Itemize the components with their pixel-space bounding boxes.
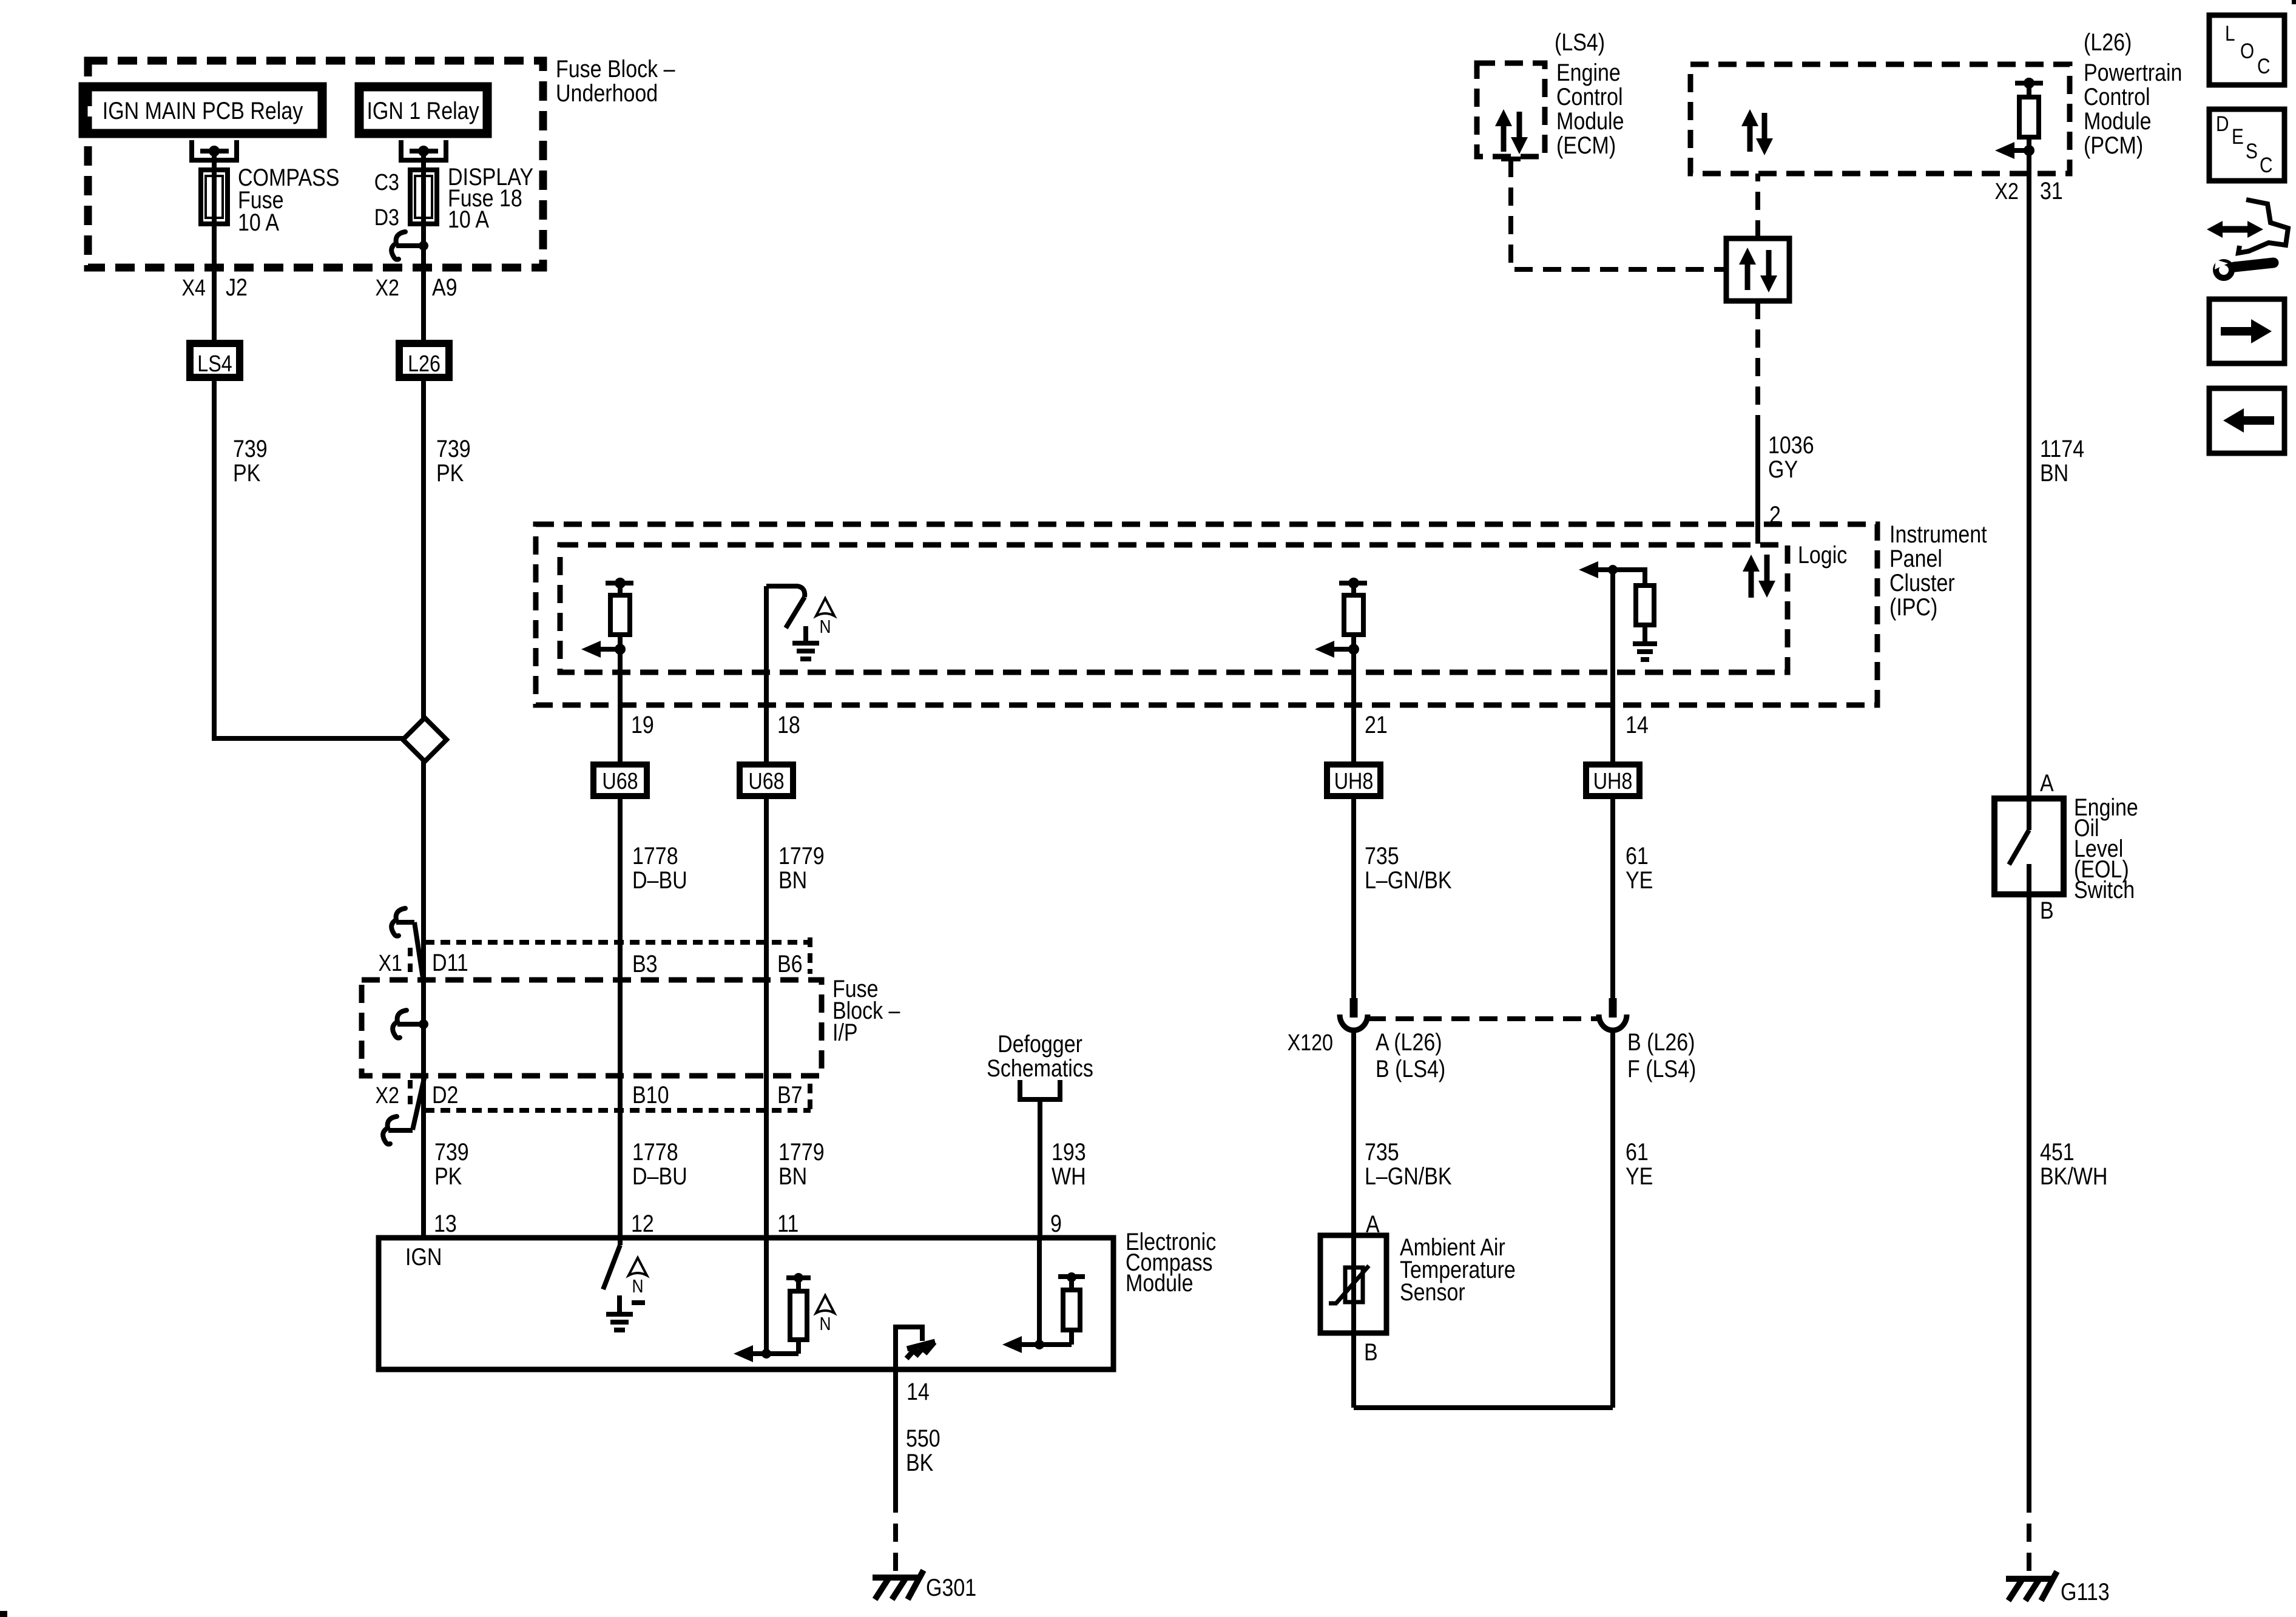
wire label 735 L-GN/BK upper <box>1365 842 1452 893</box>
compass signal arrow pin 9 <box>1018 1342 1039 1347</box>
page corner mark top right <box>2292 0 2296 4</box>
connector D3 hook <box>391 232 424 260</box>
IPC logic arrows <box>1743 555 1775 598</box>
relay K1 IGN MAIN PCB Relay <box>83 87 322 133</box>
svg-text:YE: YE <box>1626 866 1653 893</box>
svg-text:N: N <box>632 1276 643 1297</box>
PCM resistor R4 <box>2019 83 2039 150</box>
junction dot pin 14 <box>1608 565 1618 575</box>
connector X2 hook lower <box>383 1116 413 1144</box>
compass resistor R5 branch <box>766 1281 807 1354</box>
dotted separator X1 <box>408 948 413 974</box>
page corner mark bottom left <box>0 1611 7 1617</box>
svg-text:Module: Module <box>1556 107 1624 134</box>
svg-text:G301: G301 <box>926 1573 976 1601</box>
svg-text:Control: Control <box>2084 83 2150 110</box>
PCM resistor terminal bar <box>2015 78 2043 89</box>
IPC signal arrow pin 14 <box>1595 567 1613 572</box>
svg-text:N: N <box>819 1314 831 1334</box>
IPC resistor R3 branch <box>1613 570 1654 642</box>
svg-text:PK: PK <box>434 1162 462 1189</box>
wire 735 L-GN/BK upper <box>1351 799 1356 998</box>
svg-text:N: N <box>819 616 831 637</box>
svg-text:D–BU: D–BU <box>632 1162 687 1189</box>
svg-text:UH8: UH8 <box>1334 769 1374 794</box>
wire 735 to sensor <box>1351 1030 1356 1235</box>
label Instrument Panel Cluster IPC <box>1889 520 1987 620</box>
svg-text:E: E <box>2232 125 2244 149</box>
svg-text:UH8: UH8 <box>1593 769 1633 794</box>
icon DESC box <box>2209 109 2284 181</box>
wire label 735 L-GN/BK lower <box>1365 1138 1452 1189</box>
electronic compass module box <box>379 1238 1113 1369</box>
dashed connector X120 link <box>1368 1016 1599 1021</box>
svg-text:X2: X2 <box>376 1083 399 1109</box>
svg-text:735: 735 <box>1365 1138 1399 1165</box>
junction dot pin 11 <box>761 1349 771 1359</box>
svg-text:1778: 1778 <box>632 1138 678 1165</box>
connector tag U68 pin18 <box>740 765 793 796</box>
label B (L26) F (LS4) <box>1627 1028 1696 1082</box>
ambient air temperature sensor box <box>1320 1235 1386 1333</box>
label A (L26) B (LS4) <box>1376 1028 1445 1082</box>
svg-text:PK: PK <box>233 459 261 486</box>
compass wire pin 9 <box>1037 1238 1042 1345</box>
svg-text:LS4: LS4 <box>197 351 232 377</box>
label Electronic Compass Module <box>1126 1227 1216 1296</box>
defogger off-page bracket <box>1020 1080 1060 1099</box>
fuse F1 COMPASS Fuse 10A <box>201 170 228 224</box>
engine control module dashed box <box>1477 63 1545 157</box>
compass switch pin 12 <box>603 1238 620 1289</box>
compass resistor R6 terminal bar <box>1058 1272 1085 1282</box>
svg-text:Sensor: Sensor <box>1400 1278 1465 1305</box>
svg-text:Control: Control <box>1556 83 1623 110</box>
svg-text:S: S <box>2246 140 2258 163</box>
IPC signal arrow pin 19 <box>597 647 620 652</box>
IPC signal arrow pin 21 <box>1331 647 1354 652</box>
svg-text:PK: PK <box>436 459 464 486</box>
svg-text:Panel: Panel <box>1889 544 1942 572</box>
svg-text:(L26): (L26) <box>2084 28 2132 55</box>
wire label 61 YE upper <box>1626 842 1653 893</box>
junction dot pin 31 <box>2024 145 2034 156</box>
connector X120 pin A male <box>1350 998 1358 1018</box>
svg-text:1174: 1174 <box>2040 434 2084 462</box>
svg-text:Underhood: Underhood <box>556 79 658 106</box>
svg-text:739: 739 <box>436 434 471 462</box>
dashed wire to G113 <box>2027 1494 2031 1578</box>
junction dot pin 21 <box>1348 644 1359 655</box>
svg-text:1779: 1779 <box>778 842 825 869</box>
svg-text:A: A <box>2040 769 2054 796</box>
wire label 739 PK right <box>436 434 471 486</box>
svg-text:WH: WH <box>1052 1162 1086 1189</box>
ECM serial data arrows <box>1495 109 1528 154</box>
compass signal arrow pin 11 <box>749 1351 766 1356</box>
svg-text:IGN: IGN <box>405 1243 442 1270</box>
N marker compass switch <box>629 1258 647 1275</box>
svg-text:Module: Module <box>1126 1269 1193 1296</box>
svg-text:14: 14 <box>907 1377 930 1405</box>
wire from L26 down to splice <box>421 381 426 718</box>
dotted separator X2 <box>408 1080 413 1107</box>
svg-text:Switch: Switch <box>2074 876 2135 903</box>
compass resistor R5 terminal bar <box>786 1273 811 1283</box>
label Powertrain Control Module PCM <box>2084 58 2182 158</box>
label Defogger Schematics <box>987 1030 1093 1081</box>
connector X120 pin A female cup <box>1340 1014 1368 1030</box>
instrument panel cluster outer dashed box <box>536 524 1877 705</box>
compass switch fixed contact <box>632 1300 645 1305</box>
label Engine Control Module ECM <box>1556 58 1624 158</box>
wire pin 14 to UH8 <box>1610 570 1615 761</box>
icon next arrow box <box>2209 299 2284 363</box>
svg-text:L–GN/BK: L–GN/BK <box>1365 866 1452 893</box>
label Fuse Block - I/P <box>832 974 900 1045</box>
svg-text:10 A: 10 A <box>238 208 279 235</box>
svg-text:A: A <box>1366 1210 1380 1237</box>
svg-text:11: 11 <box>777 1209 799 1237</box>
junction dot pin 9 <box>1035 1340 1044 1349</box>
svg-text:Instrument: Instrument <box>1889 520 1987 547</box>
connector tag UH8 pin14 <box>1586 765 1639 796</box>
svg-text:193: 193 <box>1052 1138 1086 1165</box>
svg-text:C3: C3 <box>374 170 399 195</box>
svg-text:U68: U68 <box>748 769 784 794</box>
wire label 739 PK lower <box>434 1138 469 1189</box>
wire 1779 BN upper <box>764 799 769 1238</box>
connector X2 hook upper <box>393 1010 424 1038</box>
thermistor RT1 <box>1329 1266 1369 1303</box>
compass wire pin 11 <box>764 1238 769 1354</box>
fuse block underhood dashed box <box>88 61 543 268</box>
wire PCM pin 31 down <box>2027 150 2031 798</box>
icon LOC box <box>2209 15 2284 85</box>
wire label 451 BK/WH <box>2040 1138 2107 1189</box>
pin X4 J2 labels <box>182 273 248 300</box>
wire 193 WH <box>1038 1099 1042 1238</box>
dashed wire junction down <box>1755 301 1760 422</box>
svg-text:D2: D2 <box>432 1081 458 1108</box>
svg-text:Schematics: Schematics <box>987 1054 1093 1081</box>
wire 550 BK <box>893 1369 898 1494</box>
label Fuse Block - Underhood <box>556 55 675 106</box>
svg-text:B3: B3 <box>632 950 658 977</box>
svg-text:1036: 1036 <box>1768 431 1814 458</box>
svg-text:Logic: Logic <box>1798 541 1847 568</box>
svg-text:D–BU: D–BU <box>632 866 687 893</box>
svg-text:739: 739 <box>233 434 268 462</box>
svg-text:X2: X2 <box>1995 179 2019 204</box>
svg-text:D11: D11 <box>432 948 468 976</box>
IPC switch to ground pin 18 <box>766 586 805 761</box>
svg-text:19: 19 <box>631 711 654 738</box>
connector X1 hook <box>391 908 423 978</box>
IPC resistor R2 <box>1344 583 1363 649</box>
svg-text:(ECM): (ECM) <box>1556 131 1616 158</box>
EOL switch blade <box>2009 798 2029 894</box>
wire 451 BK/WH <box>2027 894 2031 1494</box>
wire 739 PK below splice <box>421 761 426 1238</box>
icon previous arrow box <box>2209 388 2284 453</box>
wire label 1779 BN upper <box>778 842 825 893</box>
sensor internal wire <box>1351 1235 1356 1333</box>
N marker compass resistor <box>816 1295 834 1313</box>
wire label 193 WH <box>1052 1138 1086 1189</box>
svg-text:61: 61 <box>1626 1138 1649 1165</box>
svg-text:61: 61 <box>1626 842 1649 869</box>
compass earth ground <box>606 1312 633 1317</box>
engine oil level switch box <box>1994 798 2064 894</box>
wire 1778 D-BU upper <box>618 799 623 1238</box>
svg-text:YE: YE <box>1626 1162 1653 1189</box>
ECM terminal bar <box>1501 157 1521 161</box>
relay K2 output terminal <box>401 140 446 160</box>
svg-text:C: C <box>2260 154 2272 177</box>
svg-text:18: 18 <box>777 711 800 738</box>
svg-text:B: B <box>1364 1338 1378 1365</box>
dotted terminator right of B6 <box>808 937 812 974</box>
label COMPASS Fuse 10 A <box>238 163 339 235</box>
svg-text:31: 31 <box>2040 177 2063 204</box>
connector tag U68 pin19 <box>593 765 647 796</box>
svg-text:(IPC): (IPC) <box>1889 593 1937 620</box>
svg-text:Cluster: Cluster <box>1889 569 1955 596</box>
wire label 1779 BN lower <box>778 1138 825 1189</box>
relay K1 output terminal <box>192 140 237 160</box>
connector X2 diagonal <box>413 1076 425 1130</box>
svg-text:X2: X2 <box>376 275 399 301</box>
dashed wire to G301 <box>893 1494 898 1576</box>
svg-text:G113: G113 <box>2061 1578 2110 1605</box>
IPC earth ground R3 <box>1633 641 1657 646</box>
svg-text:14: 14 <box>1626 711 1649 738</box>
powertrain control module dashed box <box>1690 64 2070 174</box>
dotted row X2 D2 B10 B7 <box>425 1108 811 1113</box>
wire from LS4 down and right to splice <box>214 381 403 738</box>
wire sensor B to loop <box>1351 1333 1356 1408</box>
splice diamond <box>403 718 447 761</box>
PCM serial data arrows <box>1741 109 1773 155</box>
svg-text:1779: 1779 <box>778 1138 825 1165</box>
svg-text:B (LS4): B (LS4) <box>1376 1055 1445 1082</box>
svg-text:Module: Module <box>2084 107 2151 134</box>
svg-text:X120: X120 <box>1288 1030 1333 1056</box>
wire label 550 BK <box>906 1424 940 1476</box>
wire pin 19 to U68 <box>618 649 623 761</box>
fuse block I/P dashed box <box>362 980 822 1076</box>
wire 1036 GY <box>1755 422 1760 544</box>
svg-text:BK: BK <box>906 1448 934 1476</box>
IPC earth ground <box>792 641 819 646</box>
svg-text:J2: J2 <box>226 273 248 300</box>
svg-text:9: 9 <box>1050 1209 1062 1237</box>
svg-text:Fuse Block –: Fuse Block – <box>556 55 675 82</box>
label Engine Oil Level EOL Switch <box>2074 793 2138 903</box>
wire sensor loop bottom <box>1354 1405 1613 1410</box>
svg-text:550: 550 <box>906 1424 940 1451</box>
wire 61 to sensor loop <box>1610 1030 1615 1408</box>
compass resistor R6 branch <box>1039 1281 1080 1345</box>
wire label 739 PK left <box>233 434 268 486</box>
svg-text:A9: A9 <box>432 273 458 300</box>
connector tag LS4 <box>190 343 240 377</box>
compass switch ground stub <box>617 1295 622 1312</box>
dotted terminator right of B7 <box>808 1084 812 1114</box>
junction dot pin 19 <box>615 644 626 655</box>
IPC switch ground stub <box>803 626 808 642</box>
svg-text:Engine: Engine <box>1556 58 1621 86</box>
fuse F2 DISPLAY Fuse 18 10A <box>410 170 437 224</box>
wire 739 PK from DISPLAY fuse <box>421 151 426 340</box>
label Ambient Air Temperature Sensor <box>1400 1233 1516 1305</box>
svg-text:D3: D3 <box>374 205 399 231</box>
IPC resistor R1 <box>610 583 630 649</box>
wire 739 PK from COMPASS fuse <box>212 151 217 340</box>
svg-text:A (L26): A (L26) <box>1376 1028 1442 1055</box>
connector X120 pin B male <box>1609 998 1617 1018</box>
svg-text:B7: B7 <box>777 1081 803 1108</box>
serial data junction box <box>1726 238 1789 301</box>
svg-text:2: 2 <box>1769 501 1781 528</box>
connector tag UH8 pin21 <box>1327 765 1380 796</box>
svg-text:10 A: 10 A <box>448 205 489 232</box>
ground G113 <box>2006 1576 2053 1582</box>
svg-text:(PCM): (PCM) <box>2084 131 2143 158</box>
connector X120 pin B female cup <box>1599 1014 1627 1030</box>
PCM signal arrow pin 31 <box>2011 148 2029 153</box>
svg-text:L: L <box>2225 22 2235 46</box>
svg-text:(LS4): (LS4) <box>1555 28 1605 55</box>
icon diagnostic wrench <box>2207 200 2288 278</box>
wire 61 YE upper <box>1610 799 1615 998</box>
IPC pull-up resistor R1 terminal bar <box>606 578 633 589</box>
svg-text:1778: 1778 <box>632 842 678 869</box>
N marker IPC switch <box>816 598 834 616</box>
dashed wire ECM serial data <box>1511 159 1726 269</box>
svg-text:Powertrain: Powertrain <box>2084 58 2182 86</box>
svg-text:451: 451 <box>2040 1138 2075 1165</box>
svg-text:U68: U68 <box>602 769 638 794</box>
svg-text:B6: B6 <box>777 950 803 977</box>
junction dot X2 upper <box>419 1019 428 1029</box>
ground G301 <box>873 1575 920 1581</box>
svg-text:L–GN/BK: L–GN/BK <box>1365 1162 1452 1189</box>
svg-text:BN: BN <box>2040 459 2068 486</box>
instrument panel cluster inner dashed box <box>560 545 1788 672</box>
wire pin 21 to UH8 <box>1351 649 1356 761</box>
svg-text:12: 12 <box>631 1209 654 1237</box>
dotted row X1 D11 B3 B6 <box>425 940 811 945</box>
svg-text:F (LS4): F (LS4) <box>1627 1055 1696 1082</box>
svg-text:B: B <box>2040 896 2054 923</box>
svg-text:L26: L26 <box>408 351 441 377</box>
connector tag L26 <box>399 343 449 377</box>
svg-text:I/P: I/P <box>832 1018 858 1045</box>
svg-text:21: 21 <box>1365 711 1388 738</box>
svg-text:735: 735 <box>1365 842 1399 869</box>
svg-text:X4: X4 <box>182 275 206 301</box>
relay K2 IGN 1 Relay <box>359 87 487 133</box>
pin X2 A9 labels <box>376 273 458 300</box>
wire label 61 YE lower <box>1626 1138 1653 1189</box>
svg-text:C: C <box>2257 55 2270 78</box>
svg-text:O: O <box>2240 39 2254 63</box>
svg-text:Defogger: Defogger <box>998 1030 1082 1057</box>
wire label 1174 BN <box>2040 434 2084 486</box>
svg-text:13: 13 <box>434 1209 457 1237</box>
svg-text:IGN 1 Relay: IGN 1 Relay <box>366 96 479 124</box>
svg-text:IGN MAIN PCB Relay: IGN MAIN PCB Relay <box>103 96 303 124</box>
serial data junction arrows <box>1739 248 1777 292</box>
svg-text:GY: GY <box>1768 455 1798 482</box>
junction dot on DISPLAY wire <box>419 241 428 251</box>
svg-text:X1: X1 <box>379 951 402 976</box>
svg-text:BK/WH: BK/WH <box>2040 1162 2107 1189</box>
dashed wire junction to PCM <box>1755 174 1760 238</box>
svg-text:BN: BN <box>778 866 807 893</box>
wire label 1778 D-BU upper <box>632 842 687 893</box>
svg-text:B (L26): B (L26) <box>1627 1028 1695 1055</box>
svg-text:B10: B10 <box>632 1081 669 1108</box>
wire label 1036 GY <box>1768 431 1814 482</box>
label DISPLAY Fuse 18 10 A <box>448 163 533 232</box>
wire label 1778 D-BU lower <box>632 1138 687 1189</box>
IPC pull-up resistor R2 terminal bar <box>1339 578 1367 589</box>
compass chassis ground <box>896 1327 935 1369</box>
svg-text:739: 739 <box>434 1138 469 1165</box>
label X2 31 <box>1995 177 2063 204</box>
svg-text:D: D <box>2216 112 2229 136</box>
svg-text:BN: BN <box>778 1162 807 1189</box>
